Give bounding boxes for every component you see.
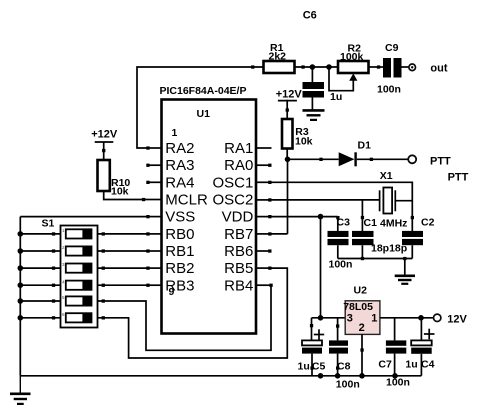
node C4 junction xyxy=(418,315,424,321)
svg-text:OSC2: OSC2 xyxy=(212,192,253,209)
svg-text:RA4: RA4 xyxy=(165,174,194,191)
capacitor C4 (1u electrolytic) xyxy=(405,318,434,376)
svg-text:100n: 100n xyxy=(329,258,353,270)
svg-text:C7: C7 xyxy=(378,358,392,370)
node bus dots xyxy=(18,231,24,321)
wire left ground bus xyxy=(19,217,21,376)
svg-text:1u: 1u xyxy=(405,359,417,371)
S1 switch 5 xyxy=(62,295,92,306)
svg-text:1u: 1u xyxy=(330,91,342,103)
resistor R1 xyxy=(264,42,295,73)
svg-text:100n: 100n xyxy=(386,376,410,388)
svg-text:10k: 10k xyxy=(295,136,313,148)
wire S1 row5 to RB4 xyxy=(98,285,272,350)
svg-text:2: 2 xyxy=(359,322,365,334)
S1 right wires rows 1-4 xyxy=(98,232,147,287)
svg-text:VDD: VDD xyxy=(222,209,254,226)
svg-text:RA3: RA3 xyxy=(165,157,194,174)
wire OSC1 to crystal net xyxy=(271,182,414,231)
svg-text:RB0: RB0 xyxy=(165,226,194,243)
node VDD riser xyxy=(318,214,324,220)
node ground rail dots xyxy=(318,373,398,379)
svg-text:PIC16F84A-04E/P: PIC16F84A-04E/P xyxy=(160,85,247,97)
S1 switch 3 xyxy=(62,262,92,273)
terminal out xyxy=(409,63,448,75)
S1 left wires xyxy=(20,232,60,319)
svg-text:RB3: RB3 xyxy=(165,277,194,294)
svg-text:C9: C9 xyxy=(385,42,399,54)
capacitor C1 xyxy=(352,217,407,259)
wire R2 to C9 xyxy=(369,65,384,68)
svg-text:C6: C6 xyxy=(303,10,317,22)
svg-text:+12V: +12V xyxy=(91,128,118,140)
capacitor C9 xyxy=(377,42,402,96)
potentiometer R2 xyxy=(329,43,369,104)
svg-text:D1: D1 xyxy=(358,139,372,151)
wire to D1 xyxy=(288,158,339,161)
wire D1 to PTT terminal xyxy=(357,158,408,161)
svg-text:10k: 10k xyxy=(111,186,129,198)
svg-text:PTT: PTT xyxy=(430,155,451,167)
svg-text:RB6: RB6 xyxy=(224,243,253,260)
svg-text:U1: U1 xyxy=(197,108,211,120)
capacitor C2 xyxy=(402,217,435,259)
S1 switch 6 xyxy=(62,312,92,323)
svg-text:S1: S1 xyxy=(42,218,55,230)
svg-text:18p18p: 18p18p xyxy=(371,242,407,254)
wire C9 to out terminal xyxy=(402,66,409,68)
capacitor C5 (1u electrolytic) xyxy=(298,318,326,376)
svg-text:12V: 12V xyxy=(447,313,467,325)
wire VSS to ground bus xyxy=(20,216,146,218)
svg-text:RB1: RB1 xyxy=(165,243,194,260)
svg-text:1u: 1u xyxy=(298,361,310,373)
svg-text:X1: X1 xyxy=(380,170,393,182)
svg-text:C5: C5 xyxy=(312,361,326,373)
S1 switch 2 xyxy=(62,245,92,255)
svg-text:2k2: 2k2 xyxy=(269,51,287,63)
node 5V rail left xyxy=(318,315,324,321)
wire RA2 to R1 xyxy=(137,65,264,148)
capacitor C3 xyxy=(328,216,353,270)
svg-text:100n: 100n xyxy=(377,84,401,96)
wire 5V rail (U2 pin3 side) xyxy=(312,317,346,319)
svg-text:PTT: PTT xyxy=(448,171,469,183)
wire R1 to R2 xyxy=(295,65,339,68)
S1 switch 1 xyxy=(62,228,92,239)
svg-text:RA1: RA1 xyxy=(224,140,253,157)
svg-text:1: 1 xyxy=(371,312,377,324)
U1 right pin stubs xyxy=(256,148,273,287)
svg-text:C1: C1 xyxy=(364,217,378,229)
wire 5V rail (U2 pin1 side) to 12V xyxy=(380,317,434,319)
U1 left pin stubs xyxy=(146,146,161,287)
wire ground rail xyxy=(20,375,421,377)
capacitor C6 (1u) xyxy=(303,67,325,109)
svg-text:RB5: RB5 xyxy=(224,260,253,277)
regulator U2 xyxy=(343,285,380,335)
wire R10 to MCLR xyxy=(104,191,147,201)
wire VDD rail xyxy=(271,216,338,218)
svg-text:C2: C2 xyxy=(421,217,435,229)
svg-text:RB7: RB7 xyxy=(224,226,253,243)
ground (main) xyxy=(10,376,31,404)
resistor R10 xyxy=(98,160,131,198)
svg-text:RA0: RA0 xyxy=(224,157,253,174)
terminal 12V xyxy=(434,313,468,325)
node R2 wiper junction xyxy=(326,64,332,70)
wire R3 to D1 node and RB7 xyxy=(270,149,288,234)
resistor R3 xyxy=(282,119,313,149)
svg-text:+12V: +12V xyxy=(276,89,303,101)
capacitor C8 (100n) xyxy=(329,318,360,391)
svg-text:VSS: VSS xyxy=(165,209,195,226)
capacitor C7 (100n) xyxy=(378,318,410,389)
svg-text:100k: 100k xyxy=(340,51,364,63)
power +12V (R10) xyxy=(91,128,118,160)
svg-text:3: 3 xyxy=(347,312,353,324)
ground (C6) xyxy=(303,110,325,120)
svg-text:100n: 100n xyxy=(336,378,360,390)
svg-text:4MHz: 4MHz xyxy=(380,217,407,229)
svg-text:C4: C4 xyxy=(421,359,435,371)
wire 5V riser xyxy=(320,217,322,318)
terminal PTT xyxy=(408,155,468,183)
power +12V (R3) xyxy=(276,89,303,120)
svg-text:U2: U2 xyxy=(354,285,368,297)
svg-text:out: out xyxy=(430,63,447,75)
svg-text:C3: C3 xyxy=(337,217,351,229)
svg-text:MCLR: MCLR xyxy=(165,192,208,209)
node C6 junction xyxy=(310,64,316,70)
svg-text:RB4: RB4 xyxy=(224,277,253,294)
node D1 anode xyxy=(285,157,291,163)
switch S1 (DIP) xyxy=(42,218,98,328)
crystal X1 xyxy=(380,170,413,229)
svg-text:RB2: RB2 xyxy=(165,260,194,277)
svg-text:RA2: RA2 xyxy=(165,140,194,157)
S1 switch 4 xyxy=(62,279,92,290)
wire crystal caps ground rail xyxy=(338,257,413,275)
wire OSC2 to crystal xyxy=(271,200,380,231)
ground (crystal) xyxy=(395,276,415,284)
svg-text:1: 1 xyxy=(172,127,178,139)
diode D1 xyxy=(339,139,371,166)
svg-text:OSC1: OSC1 xyxy=(212,174,253,191)
svg-text:C8: C8 xyxy=(337,361,351,373)
IC U1 PIC16F84A-04E/P xyxy=(160,85,257,334)
svg-text:78L05: 78L05 xyxy=(343,301,373,313)
wire U2 pin2 to ground xyxy=(360,334,363,375)
wire S1 row6 to RB5 xyxy=(98,268,288,358)
